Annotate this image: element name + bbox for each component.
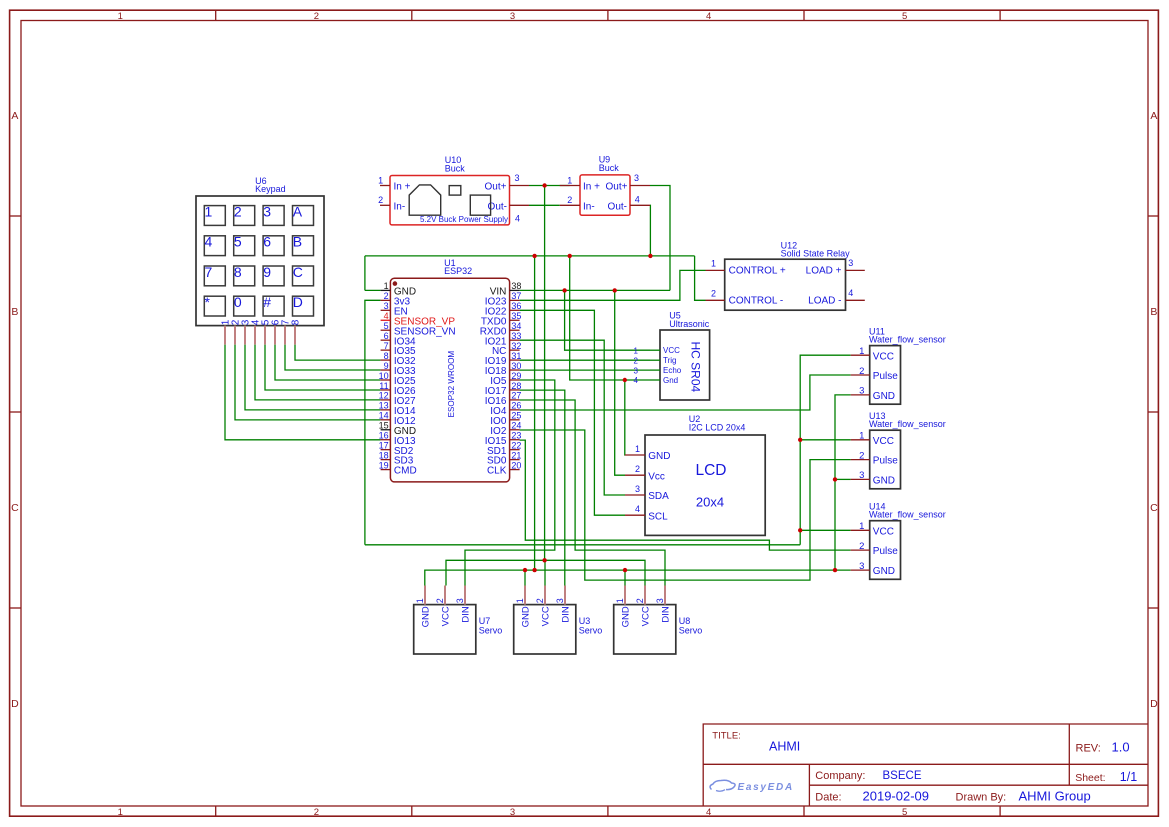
svg-text:CONTROL +: CONTROL + — [729, 266, 786, 277]
svg-text:A: A — [11, 110, 18, 122]
svg-text:2: 2 — [234, 203, 242, 219]
svg-text:VCC: VCC — [873, 526, 894, 537]
svg-text:ESOP32 WROOM: ESOP32 WROOM — [447, 351, 456, 418]
svg-text:D: D — [293, 294, 303, 310]
svg-text:LOAD -: LOAD - — [808, 296, 841, 307]
svg-text:1: 1 — [859, 431, 864, 442]
svg-text:4: 4 — [635, 195, 640, 205]
svg-text:25: 25 — [511, 411, 521, 421]
svg-text:Vcc: Vcc — [648, 471, 665, 482]
svg-text:2: 2 — [859, 450, 864, 461]
svg-text:Trig: Trig — [663, 356, 676, 365]
svg-text:2: 2 — [378, 195, 383, 205]
svg-text:2019-02-09: 2019-02-09 — [863, 788, 930, 803]
svg-text:C: C — [293, 264, 303, 280]
svg-text:7: 7 — [205, 264, 213, 280]
svg-text:Date:: Date: — [815, 791, 841, 803]
svg-text:TITLE:: TITLE: — [712, 731, 741, 742]
svg-text:27: 27 — [511, 391, 521, 401]
svg-text:CONTROL -: CONTROL - — [729, 296, 784, 307]
svg-text:2: 2 — [859, 366, 864, 377]
svg-text:CMD: CMD — [394, 466, 417, 477]
svg-text:2: 2 — [859, 541, 864, 552]
svg-text:B: B — [1150, 306, 1157, 318]
svg-text:In-: In- — [394, 201, 406, 212]
svg-text:BSECE: BSECE — [883, 770, 922, 782]
svg-text:3: 3 — [859, 561, 864, 572]
svg-text:Servo: Servo — [679, 626, 703, 636]
svg-text:33: 33 — [511, 331, 521, 341]
svg-text:2: 2 — [314, 807, 319, 818]
svg-text:37: 37 — [511, 291, 521, 301]
svg-text:B: B — [11, 306, 18, 318]
svg-text:AHMI Group: AHMI Group — [1019, 789, 1091, 804]
svg-text:Pulse: Pulse — [873, 456, 898, 467]
svg-text:DIN: DIN — [561, 606, 572, 623]
svg-text:4: 4 — [706, 807, 711, 818]
svg-text:8: 8 — [384, 351, 389, 361]
svg-text:I2C LCD 20x4: I2C LCD 20x4 — [689, 423, 746, 433]
svg-text:U8: U8 — [679, 616, 691, 626]
svg-text:Out+: Out+ — [606, 182, 628, 193]
svg-text:2: 2 — [635, 464, 640, 474]
svg-text:4: 4 — [515, 214, 520, 224]
svg-text:8: 8 — [234, 264, 242, 280]
svg-text:Ultrasonic: Ultrasonic — [669, 319, 710, 329]
svg-text:VCC: VCC — [873, 351, 894, 362]
svg-text:GND: GND — [873, 566, 895, 577]
svg-text:4: 4 — [706, 11, 711, 22]
svg-text:18: 18 — [379, 450, 389, 460]
svg-text:5: 5 — [902, 11, 907, 22]
svg-text:Keypad: Keypad — [255, 184, 286, 194]
svg-text:GND: GND — [873, 391, 895, 402]
svg-text:28: 28 — [511, 381, 521, 391]
svg-text:19: 19 — [379, 460, 389, 470]
svg-text:2: 2 — [384, 291, 389, 301]
svg-text:2: 2 — [567, 195, 572, 205]
svg-text:1.0: 1.0 — [1112, 740, 1130, 755]
svg-text:DIN: DIN — [461, 606, 472, 623]
svg-text:Out-: Out- — [608, 201, 627, 212]
svg-text:GND: GND — [621, 606, 632, 627]
svg-text:Water_flow_sensor: Water_flow_sensor — [869, 419, 946, 429]
svg-text:3: 3 — [859, 386, 864, 397]
svg-text:REV:: REV: — [1076, 742, 1101, 754]
svg-text:0: 0 — [234, 294, 242, 310]
svg-text:23: 23 — [511, 431, 521, 441]
svg-text:AHMI: AHMI — [769, 740, 800, 754]
svg-text:12: 12 — [379, 391, 389, 401]
svg-text:9: 9 — [263, 264, 271, 280]
svg-text:36: 36 — [511, 301, 521, 311]
svg-text:11: 11 — [379, 381, 388, 391]
svg-text:2: 2 — [314, 11, 319, 22]
svg-text:3: 3 — [455, 598, 465, 603]
svg-text:HC SR04: HC SR04 — [688, 342, 702, 393]
svg-text:Servo: Servo — [479, 626, 503, 636]
svg-text:1: 1 — [205, 203, 213, 219]
svg-text:Echo: Echo — [663, 366, 682, 375]
svg-text:35: 35 — [511, 311, 521, 321]
svg-text:21: 21 — [511, 450, 521, 460]
svg-text:3: 3 — [510, 11, 515, 22]
svg-text:VCC: VCC — [441, 606, 452, 626]
svg-text:1: 1 — [635, 444, 640, 454]
svg-text:1: 1 — [711, 259, 716, 269]
svg-text:32: 32 — [511, 341, 521, 351]
svg-text:GND: GND — [421, 606, 432, 627]
svg-text:D: D — [11, 698, 19, 710]
svg-text:16: 16 — [379, 431, 389, 441]
svg-text:SDA: SDA — [648, 491, 669, 502]
svg-text:3: 3 — [634, 173, 639, 183]
svg-text:1: 1 — [118, 11, 123, 22]
svg-text:5: 5 — [234, 234, 242, 250]
svg-text:4: 4 — [384, 311, 389, 321]
svg-text:SCL: SCL — [648, 511, 668, 522]
svg-text:3: 3 — [263, 203, 271, 219]
svg-text:3: 3 — [555, 598, 565, 603]
svg-text:4: 4 — [848, 288, 853, 298]
svg-text:22: 22 — [511, 440, 521, 450]
svg-text:9: 9 — [384, 361, 389, 371]
svg-text:3: 3 — [655, 598, 665, 603]
svg-text:VCC: VCC — [663, 346, 680, 355]
svg-text:Gnd: Gnd — [663, 376, 678, 385]
svg-text:7: 7 — [384, 341, 389, 351]
svg-text:5.2V Buck Power Supply: 5.2V Buck Power Supply — [420, 215, 508, 224]
svg-text:VCC: VCC — [541, 606, 552, 626]
svg-text:17: 17 — [379, 440, 389, 450]
svg-text:6: 6 — [384, 331, 389, 341]
svg-text:VCC: VCC — [873, 436, 894, 447]
svg-text:20x4: 20x4 — [696, 495, 724, 510]
svg-text:Pulse: Pulse — [873, 371, 898, 382]
svg-text:VCC: VCC — [641, 606, 652, 626]
svg-text:30: 30 — [511, 361, 521, 371]
svg-text:14: 14 — [379, 411, 389, 421]
svg-text:1: 1 — [634, 346, 639, 355]
svg-text:34: 34 — [511, 321, 521, 331]
svg-text:2: 2 — [435, 598, 445, 603]
svg-text:B: B — [293, 234, 302, 250]
svg-text:Buck: Buck — [599, 163, 620, 173]
svg-text:Sheet:: Sheet: — [1075, 772, 1105, 784]
svg-text:3: 3 — [510, 807, 515, 818]
svg-text:Water_flow_sensor: Water_flow_sensor — [869, 510, 946, 520]
svg-text:GND: GND — [873, 476, 895, 487]
svg-text:2: 2 — [634, 356, 639, 365]
svg-text:Water_flow_sensor: Water_flow_sensor — [869, 335, 946, 345]
svg-text:5: 5 — [384, 321, 389, 331]
svg-text:1: 1 — [415, 598, 425, 603]
svg-text:1: 1 — [615, 598, 625, 603]
svg-text:3: 3 — [634, 366, 639, 375]
svg-text:29: 29 — [511, 371, 521, 381]
svg-text:C: C — [11, 502, 19, 514]
svg-text:4: 4 — [205, 234, 213, 250]
svg-text:DIN: DIN — [661, 606, 672, 623]
svg-text:1/1: 1/1 — [1120, 770, 1137, 784]
svg-text:13: 13 — [379, 401, 389, 411]
svg-text:3: 3 — [859, 470, 864, 481]
svg-text:#: # — [263, 294, 271, 310]
svg-text:8: 8 — [290, 319, 301, 325]
svg-text:20: 20 — [511, 460, 521, 470]
svg-text:In +: In + — [583, 182, 600, 193]
svg-text:EasyEDA: EasyEDA — [738, 782, 794, 793]
svg-text:U7: U7 — [479, 616, 491, 626]
svg-text:U3: U3 — [579, 616, 591, 626]
svg-text:ESP32: ESP32 — [444, 266, 472, 276]
svg-text:1: 1 — [515, 598, 525, 603]
svg-text:4: 4 — [635, 504, 640, 514]
svg-text:2: 2 — [535, 598, 545, 603]
svg-text:4: 4 — [634, 376, 639, 385]
svg-text:1: 1 — [378, 175, 383, 185]
svg-text:1: 1 — [384, 281, 389, 291]
svg-text:Buck: Buck — [445, 164, 466, 174]
svg-text:1: 1 — [859, 346, 864, 357]
svg-text:Drawn By:: Drawn By: — [956, 791, 1007, 803]
svg-text:LCD: LCD — [695, 462, 726, 479]
svg-text:Company:: Company: — [815, 770, 865, 782]
svg-text:A: A — [1150, 110, 1157, 122]
svg-text:Pulse: Pulse — [873, 546, 898, 557]
svg-text:3: 3 — [635, 484, 640, 494]
svg-text:5: 5 — [902, 807, 907, 818]
svg-text:3: 3 — [384, 301, 389, 311]
svg-text:A: A — [293, 203, 303, 219]
svg-text:D: D — [1150, 698, 1158, 710]
svg-text:2: 2 — [711, 289, 716, 299]
svg-text:*: * — [205, 294, 211, 310]
svg-text:2: 2 — [635, 598, 645, 603]
svg-text:24: 24 — [511, 421, 521, 431]
svg-text:CLK: CLK — [487, 466, 507, 477]
svg-text:LOAD +: LOAD + — [806, 266, 842, 277]
svg-text:3: 3 — [515, 173, 520, 183]
svg-text:15: 15 — [379, 421, 389, 431]
svg-text:6: 6 — [263, 234, 271, 250]
svg-text:38: 38 — [511, 281, 521, 291]
svg-text:31: 31 — [511, 351, 521, 361]
svg-text:1: 1 — [567, 175, 572, 185]
svg-text:Servo: Servo — [579, 626, 603, 636]
svg-text:In-: In- — [583, 201, 595, 212]
svg-text:26: 26 — [511, 401, 521, 411]
svg-text:1: 1 — [118, 807, 123, 818]
svg-text:GND: GND — [521, 606, 532, 627]
svg-text:In +: In + — [394, 182, 411, 193]
svg-text:Solid State Relay: Solid State Relay — [781, 249, 851, 259]
svg-text:GND: GND — [648, 451, 670, 462]
svg-text:Out+: Out+ — [485, 182, 507, 193]
svg-text:10: 10 — [379, 371, 389, 381]
svg-text:1: 1 — [859, 521, 864, 532]
svg-text:C: C — [1150, 502, 1158, 514]
svg-text:3: 3 — [848, 258, 853, 268]
